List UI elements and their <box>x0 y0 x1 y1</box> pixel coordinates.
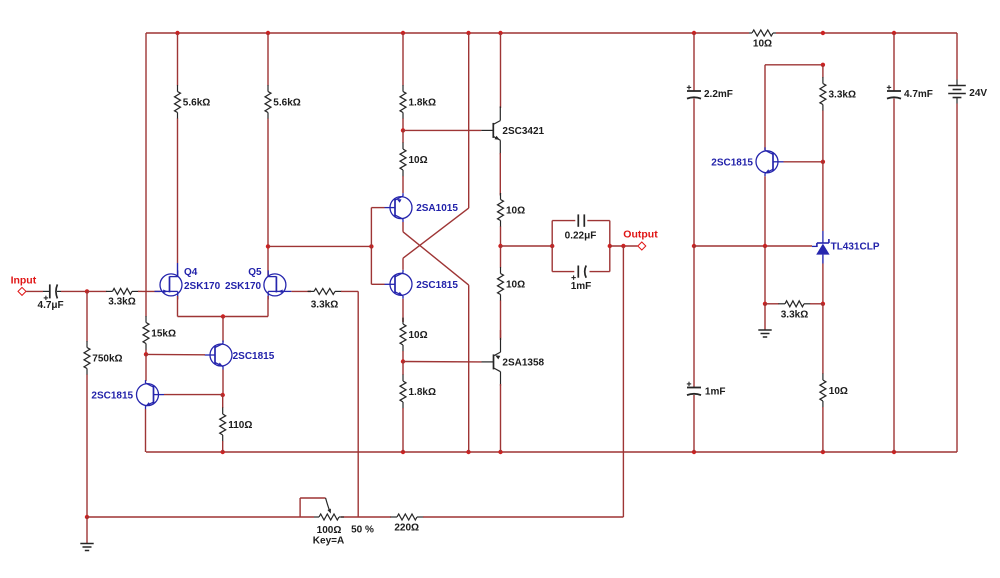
svg-text:2.2mF: 2.2mF <box>704 89 733 100</box>
label C3 value 1mF <box>705 387 726 398</box>
resistor R10 10&#937; <box>400 318 406 362</box>
transistor Q1 2SC1815 (bias diode) <box>137 380 165 409</box>
node rail-R2 <box>266 31 270 35</box>
node bus-C2 <box>692 450 696 454</box>
resistor R16 220&#937; <box>341 514 623 520</box>
label R18 value 3.3k&#937; <box>781 309 808 320</box>
node q9-base <box>821 160 825 164</box>
label U1 value TL431CLP <box>831 242 880 253</box>
label Q6 value 2SC3421 <box>502 126 544 137</box>
wire C4 bottom <box>893 99 895 453</box>
label Q4 ref <box>184 267 198 278</box>
label R17 key Key=A <box>313 536 344 547</box>
node bus-Q7 <box>498 450 502 454</box>
svg-text:10Ω: 10Ω <box>506 205 525 216</box>
transistor Q3 2SC1815 (tail current source) <box>205 341 233 370</box>
wire box top right <box>587 220 610 222</box>
label C1 plus <box>44 296 48 300</box>
wire box right edge <box>609 221 611 272</box>
wire source join <box>178 316 269 318</box>
wire Q5 gate <box>292 290 312 292</box>
resistor R_rail 10&#937; (series in rail) <box>749 30 776 36</box>
svg-text:24V: 24V <box>969 88 987 99</box>
label R15 value 10&#937; <box>506 279 525 290</box>
svg-text:Q4: Q4 <box>184 267 198 278</box>
label V1 value 24V <box>969 88 987 99</box>
terminal Input <box>18 287 26 295</box>
label R_rail value 10&#937; <box>753 39 772 50</box>
ground GND2 <box>758 330 771 337</box>
label R3 value 3.3k&#937; <box>108 296 135 307</box>
label R4 value 750k&#937; <box>92 353 122 364</box>
wire gnd2 drop <box>764 304 766 330</box>
wire battery top <box>956 33 958 80</box>
node rail-R1 <box>175 31 179 35</box>
wire out-box <box>501 245 553 247</box>
label Q9 value 2SC1815 <box>711 157 753 168</box>
wire V- bus <box>146 451 957 453</box>
wiper R17 <box>326 498 331 514</box>
label R6 value 110&#937; <box>228 420 252 431</box>
wire bias-collector <box>145 354 147 381</box>
resistor R6 110&#937; <box>220 395 226 452</box>
wire tail drop <box>222 317 224 343</box>
resistor R11 1.8k&#937; <box>400 362 406 453</box>
label Q3 value 2SC1815 <box>233 351 275 362</box>
wire r3-gate <box>142 290 160 292</box>
svg-text:0.22μF: 0.22μF <box>565 230 597 241</box>
wire C3 top <box>693 246 695 388</box>
wire emitter down <box>764 246 766 304</box>
label R11 value 1.8k&#937; <box>409 387 436 398</box>
wire Q2 collector corner <box>402 222 404 232</box>
transistor Q9 2SC1815 (ripple filter) <box>756 147 784 176</box>
ground GND1 <box>80 544 93 551</box>
label Q1 value 2SC1815 <box>91 390 133 401</box>
svg-text:Input: Input <box>11 275 37 287</box>
resistor R3 3.3k&#937; (input) <box>87 288 142 294</box>
label Q8 value 2SC1815 <box>416 280 458 291</box>
node deg-node <box>221 393 225 397</box>
capacitor C2 2.2mF <box>687 85 701 98</box>
capacitor C5 0.22&#956;F <box>578 214 584 226</box>
resistor R15 10&#937; <box>498 246 504 338</box>
wire diag Q8-to-rail <box>403 208 469 258</box>
svg-text:1.8kΩ: 1.8kΩ <box>409 387 436 398</box>
wire box-out <box>610 245 638 247</box>
node out-tap <box>621 244 625 248</box>
label Q2 value 2SA1015 <box>416 203 458 214</box>
svg-text:1mF: 1mF <box>705 387 726 398</box>
wire C4 top <box>893 33 895 91</box>
wire Q8 collector corner <box>402 258 404 270</box>
node source-join <box>221 314 225 318</box>
wire link-up <box>371 208 384 247</box>
capacitor C1 4.7&#956;F <box>43 284 61 298</box>
node ref-left <box>692 244 696 248</box>
resistor R12 3.3k&#937; (upper right) <box>820 65 826 162</box>
label R2 value 5.6k&#937; <box>273 97 300 108</box>
svg-text:2SA1358: 2SA1358 <box>502 357 544 368</box>
wire Q9 base <box>784 161 823 163</box>
wire box bottom right <box>590 271 610 273</box>
svg-text:3.3kΩ: 3.3kΩ <box>108 296 135 307</box>
svg-text:220Ω: 220Ω <box>394 523 419 534</box>
wire Q6 collector <box>500 33 502 108</box>
label R16 value 220&#937; <box>394 523 419 534</box>
label R9 value 10&#937; <box>409 155 428 166</box>
wire tl431 top <box>822 162 824 231</box>
node output-node <box>498 244 502 248</box>
svg-text:2SC1815: 2SC1815 <box>233 351 275 362</box>
transistor Q4 2SK170 <box>155 270 183 299</box>
svg-text:2SA1015: 2SA1015 <box>416 203 458 214</box>
wire pass collector <box>764 65 766 150</box>
label Output <box>623 229 658 241</box>
capacitor C4 4.7mF <box>887 85 901 98</box>
label R10 value 10&#937; <box>409 330 428 341</box>
battery V1 24V <box>948 80 966 104</box>
svg-text:2SC3421: 2SC3421 <box>502 126 544 137</box>
svg-text:1mF: 1mF <box>571 281 592 292</box>
node q5drain-link <box>266 244 270 248</box>
wire X-up <box>468 33 470 208</box>
svg-text:2SK170: 2SK170 <box>225 281 262 292</box>
wire pot left wire <box>87 516 314 518</box>
svg-text:10Ω: 10Ω <box>409 330 428 341</box>
svg-text:10Ω: 10Ω <box>409 155 428 166</box>
node bus-R13 <box>821 450 825 454</box>
svg-text:4.7μF: 4.7μF <box>38 300 64 311</box>
node bus-C4 <box>892 450 896 454</box>
wire C2 top <box>693 33 695 91</box>
resistor R5 15k&#937; <box>143 316 149 355</box>
label R13 value 10&#937; <box>829 386 848 397</box>
wire bias-base <box>146 353 205 355</box>
node pass-top <box>821 63 825 67</box>
svg-text:5.6kΩ: 5.6kΩ <box>273 97 300 108</box>
svg-text:2SC1815: 2SC1815 <box>416 280 458 291</box>
svg-text:10Ω: 10Ω <box>506 279 525 290</box>
label R1 value 5.6k&#937; <box>183 97 210 108</box>
node fb-gnd <box>85 515 89 519</box>
svg-text:3.3kΩ: 3.3kΩ <box>781 309 808 320</box>
capacitor C3 1mF <box>687 382 701 395</box>
svg-text:2SK170: 2SK170 <box>184 281 221 292</box>
resistor R7 3.3k&#937; (feedback) <box>308 288 359 294</box>
wire feedback drop <box>622 246 624 517</box>
node bus-X <box>466 450 470 454</box>
node q9-emitter <box>763 244 767 248</box>
node rail-Q6 <box>498 31 502 35</box>
svg-text:Output: Output <box>623 229 658 241</box>
svg-text:10Ω: 10Ω <box>829 386 848 397</box>
node box-left <box>550 244 554 248</box>
node shunt-left <box>763 302 767 306</box>
svg-text:50 %: 50 % <box>351 525 374 536</box>
transistor Q6 2SC3421 <box>481 106 500 154</box>
svg-text:2SC1815: 2SC1815 <box>91 390 133 401</box>
wire Q6 base wire <box>403 129 481 131</box>
label C2 value 2.2mF <box>704 89 733 100</box>
resistor R1 5.6k&#937; <box>175 33 181 263</box>
wire left rail mid <box>145 291 147 315</box>
resistor R18 3.3k&#937; (shunt lower) <box>765 301 823 307</box>
label Q5 ref <box>248 267 262 278</box>
svg-text:4.7mF: 4.7mF <box>904 89 933 100</box>
terminal Output <box>638 242 646 250</box>
node rail-X1 <box>466 31 470 35</box>
wire pot bump top <box>300 497 326 499</box>
label R8 value 1.8k&#937; <box>409 97 436 108</box>
svg-text:3.3kΩ: 3.3kΩ <box>311 299 338 310</box>
wire C2 bottom <box>693 99 695 247</box>
wire pass top <box>765 64 823 66</box>
label R12 value 3.3k&#937; <box>829 89 856 100</box>
label R7 value 3.3k&#937; <box>311 299 338 310</box>
label R5 value 15k&#937; <box>151 328 176 339</box>
wire box bottom left <box>552 271 574 273</box>
svg-text:110Ω: 110Ω <box>228 420 252 431</box>
node rail-C2 <box>692 31 696 35</box>
node drv-bot <box>401 359 405 363</box>
svg-text:100Ω: 100Ω <box>317 525 342 536</box>
wire Q3 emitter <box>222 370 224 396</box>
potentiometer R17 100&#937; <box>314 514 344 520</box>
wire X-down <box>468 285 470 452</box>
wire Q5 drain upper <box>267 246 269 276</box>
resistor R4 750k&#937; <box>84 291 90 517</box>
wire tl431 bottom <box>822 255 824 304</box>
label C4 value 4.7mF <box>904 89 933 100</box>
wire pot bump left <box>299 498 301 517</box>
wire Q4 drain <box>177 263 179 277</box>
wire battery bottom <box>956 104 958 453</box>
label C5 value 0.22&#956;F <box>565 230 597 241</box>
wire Q7 collector down <box>500 384 502 452</box>
wire Q4 source <box>177 296 179 317</box>
resistor R2 5.6k&#937; <box>265 33 271 246</box>
svg-text:15kΩ: 15kΩ <box>151 328 176 339</box>
wire cap-junction <box>61 290 87 292</box>
label C1 value 4.7&#956;F <box>38 300 64 311</box>
wire input-cap <box>26 290 43 292</box>
wire box left edge <box>551 221 553 272</box>
svg-text:2SC1815: 2SC1815 <box>711 157 753 168</box>
wire diag Q2-to-bus <box>403 232 469 285</box>
node bus-1k8 <box>401 450 405 454</box>
wire Q7 base wire <box>403 361 482 363</box>
svg-text:1.8kΩ: 1.8kΩ <box>409 97 436 108</box>
wire Q6 emitter down <box>499 153 501 196</box>
svg-text:TL431CLP: TL431CLP <box>831 242 880 253</box>
resistor R8 1.8k&#937; <box>400 33 406 130</box>
label Q4 value 2SK170 <box>184 281 221 292</box>
transistor Q7 2SA1358 <box>482 338 501 386</box>
node rail-C4 <box>892 31 896 35</box>
resistor R9 10&#937; <box>400 130 406 193</box>
node N-bias <box>144 352 148 356</box>
wire left rail top <box>145 33 147 291</box>
label C6 value 1mF <box>571 281 592 292</box>
resistor R14 10&#937; <box>498 193 504 246</box>
wire drain-link <box>268 245 371 247</box>
wire Q1 emitter <box>145 409 147 452</box>
wire fb-drop <box>357 291 359 517</box>
node bus-110 <box>221 450 225 454</box>
shunt-reference U1 TL431CLP <box>812 231 830 255</box>
label R17 value 100&#937; <box>317 525 342 536</box>
svg-text:3.3kΩ: 3.3kΩ <box>829 89 856 100</box>
label Q5 value 2SK170 <box>225 281 262 292</box>
node rail-R3 <box>401 31 405 35</box>
capacitor C6 1mF (output) <box>571 266 586 280</box>
label R14 value 10&#937; <box>506 205 525 216</box>
wire Q5 source <box>267 296 269 317</box>
wire C3 bottom <box>693 395 695 452</box>
wire Q7 emitter up <box>500 330 502 340</box>
wire Q9 emitter <box>764 176 766 246</box>
label R17 setting 50 % <box>351 525 374 536</box>
wire ref link <box>694 245 812 247</box>
label Q7 value 2SA1358 <box>502 357 544 368</box>
wire Q8 emitter <box>402 299 404 322</box>
transistor Q8 2SC1815 (driver) <box>385 270 413 299</box>
wire gnd-drop <box>86 517 88 544</box>
wire VCC rail left segment <box>146 32 749 34</box>
svg-text:Key=A: Key=A <box>313 536 344 547</box>
label Input <box>11 275 37 287</box>
transistor Q5 2SK170 <box>264 270 292 299</box>
node rail-R12 <box>821 31 825 35</box>
transistor Q2 2SA1015 (driver) <box>385 193 413 222</box>
svg-text:750kΩ: 750kΩ <box>92 353 122 364</box>
wire Q1 base <box>164 394 223 396</box>
svg-text:5.6kΩ: 5.6kΩ <box>183 97 210 108</box>
svg-text:Q5: Q5 <box>248 267 262 278</box>
node box-right <box>608 244 612 248</box>
node drv-top <box>401 128 405 132</box>
wire VCC rail right segment <box>776 32 957 34</box>
node shunt-right <box>821 302 825 306</box>
wire link-down <box>371 246 384 284</box>
node link-mid <box>369 244 373 248</box>
wire box top left <box>552 220 575 222</box>
node input-junction <box>85 289 89 293</box>
resistor R13 10&#937; (right) <box>820 304 826 452</box>
svg-text:10Ω: 10Ω <box>753 39 772 50</box>
